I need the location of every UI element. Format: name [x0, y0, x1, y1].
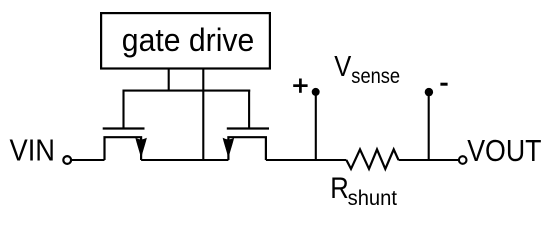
wire: - sense tap — [428, 92, 430, 160]
wire: gate bus horizontal — [123, 90, 251, 92]
transistor Q2 channel — [228, 137, 266, 160]
svg-text:VOUT: VOUT — [467, 133, 541, 168]
wire: + sense tap — [315, 92, 317, 160]
label Rshunt — [330, 172, 397, 210]
svg-text:VIN: VIN — [10, 133, 56, 168]
wire: gate-drive output to gate bus — [168, 69, 170, 91]
wire: resistor to VOUT — [399, 159, 459, 161]
node: - sense dot — [425, 88, 433, 96]
wire: Q2 to resistor — [266, 159, 347, 161]
transistor Q1 channel — [105, 137, 142, 160]
svg-text:R: R — [330, 172, 349, 205]
label Vsense — [334, 51, 400, 88]
wire: right gate drop — [248, 90, 250, 129]
svg-text:gate drive: gate drive — [122, 22, 255, 58]
node: + sense dot — [312, 88, 320, 96]
gate drive box U1 — [101, 13, 270, 68]
svg-text:V: V — [334, 51, 352, 83]
transistor Q1 arrow — [136, 138, 147, 155]
resistor Rshunt zigzag — [346, 149, 398, 169]
minus sign — [440, 83, 447, 86]
svg-text:shunt: shunt — [348, 187, 398, 210]
transistor Q2 gate bar — [227, 127, 269, 129]
svg-text:sense: sense — [351, 65, 400, 88]
wire: gate-drive to common-source node — [202, 69, 204, 161]
VIN terminal circle — [63, 156, 71, 164]
VOUT terminal circle — [459, 156, 467, 164]
transistor Q1 gate bar — [103, 127, 145, 129]
plus sign — [293, 79, 307, 93]
wire: Q1 to Q2 rail — [141, 159, 228, 161]
wire: VIN to Q1 — [72, 159, 105, 161]
wire: left gate drop — [122, 90, 124, 129]
transistor Q2 arrow — [223, 138, 234, 155]
